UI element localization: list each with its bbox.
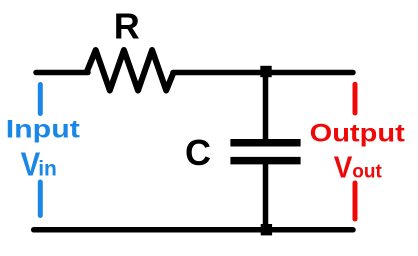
node junction top (260, 66, 271, 77)
svg-text:out: out (352, 161, 382, 182)
capacitor C bottom plate (230, 157, 300, 165)
input port dashed line upper dash (38, 85, 43, 114)
svg-text:C: C (185, 132, 211, 173)
svg-text:in: in (38, 157, 57, 180)
wire capacitor stem bottom (263, 158, 269, 230)
output port dashed line upper dash (353, 84, 358, 113)
input port dashed line lower dash (38, 182, 43, 216)
wire top-left segment (36, 70, 88, 76)
capacitor C top plate (230, 139, 300, 147)
svg-text:V: V (334, 150, 353, 185)
svg-text:R: R (114, 6, 140, 47)
svg-text:Input: Input (6, 115, 80, 143)
svg-text:Output: Output (310, 118, 405, 147)
wire capacitor stem top (263, 73, 269, 146)
resistor R (87, 50, 174, 91)
output port dashed line lower dash (353, 183, 358, 219)
node junction bottom (261, 224, 272, 235)
wire top-right segment (173, 70, 353, 76)
wire bottom (34, 227, 353, 233)
